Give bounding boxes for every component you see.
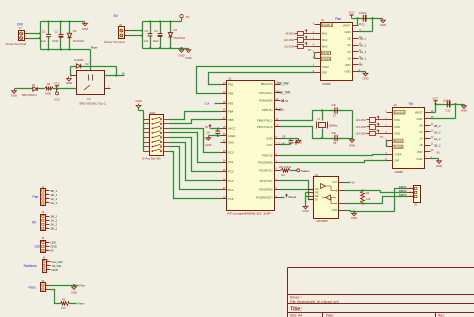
svg-text:1A: 1A [419, 137, 422, 141]
svg-text:10uF: 10uF [153, 39, 160, 43]
svg-text:B+: B+ [122, 72, 126, 76]
svg-text:U2: U2 [315, 173, 319, 177]
svg-text:PC1: PC1 [228, 160, 234, 164]
svg-text:ENABLE: ENABLE [322, 23, 333, 27]
svg-text:MS3: MS3 [395, 132, 401, 136]
svg-text:1B: 1B [419, 143, 422, 147]
svg-text:MS1: MS1 [395, 118, 401, 122]
svg-text:C2: C2 [55, 29, 59, 33]
svg-text:1uF: 1uF [144, 39, 149, 43]
svg-text:GND: GND [417, 117, 423, 121]
svg-text:GND: GND [362, 76, 368, 80]
svg-text:Pan: Pan [335, 17, 341, 21]
svg-text:PC2: PC2 [228, 170, 234, 174]
svg-text:PD4(T0): PD4(T0) [262, 154, 273, 158]
svg-text:2A: 2A [347, 43, 350, 47]
svg-text:2A_1: 2A_1 [51, 201, 58, 205]
svg-text:VCC: VCC [433, 96, 439, 100]
svg-text:Rev:: Rev: [438, 314, 445, 317]
svg-text:B: B [336, 189, 338, 193]
svg-text:5V: 5V [308, 48, 311, 52]
svg-text:GND: GND [332, 208, 338, 212]
svg-text:VCC: VCC [54, 97, 60, 101]
svg-text:VCC: VCC [54, 81, 60, 85]
svg-text:5V: 5V [437, 150, 441, 154]
svg-text:Reset: Reset [289, 195, 297, 199]
svg-text:GND: GND [417, 157, 423, 161]
svg-text:PD5(PWM): PD5(PWM) [258, 161, 272, 165]
svg-text:5V: 5V [205, 125, 208, 129]
svg-text:0.1uF: 0.1uF [204, 137, 211, 141]
svg-text:Size: A4: Size: A4 [290, 314, 302, 317]
svg-text:PB5: PB5 [228, 118, 234, 122]
svg-text:C8: C8 [282, 135, 286, 139]
svg-text:GND: GND [135, 99, 141, 103]
svg-text:8-Pos Dip SW: 8-Pos Dip SW [143, 157, 161, 161]
svg-text:Tilt: Tilt [408, 102, 412, 106]
svg-text:PC3: PC3 [228, 179, 234, 183]
svg-text:GND: GND [228, 140, 234, 144]
svg-text:J12 MS1: J12 MS1 [356, 118, 367, 122]
svg-text:2B_2: 2B_2 [434, 124, 441, 128]
svg-text:MAX485: MAX485 [317, 219, 328, 223]
svg-text:Fan-: Fan- [80, 283, 86, 287]
svg-text:PC0: PC0 [228, 151, 234, 155]
svg-text:5V: 5V [51, 249, 55, 253]
svg-text:Switches: Switches [24, 264, 38, 268]
svg-text:STEP: STEP [395, 153, 402, 157]
svg-text:GND: GND [66, 81, 72, 85]
svg-text:MS1: MS1 [322, 32, 328, 36]
svg-text:5V: 5V [114, 14, 119, 18]
svg-text:DI: DI [315, 198, 318, 202]
svg-text:1A_2: 1A_2 [434, 137, 441, 141]
svg-text:PB1: PB1 [228, 83, 234, 87]
svg-text:SRD-05VDC-SL-C: SRD-05VDC-SL-C [79, 101, 106, 105]
svg-text:VDD: VDD [417, 150, 423, 154]
svg-text:LED: LED [35, 245, 42, 249]
svg-text:VMOT: VMOT [343, 23, 351, 27]
svg-text:GND: GND [71, 290, 77, 294]
svg-text:MS2: MS2 [395, 125, 401, 129]
svg-text:J13 MS2: J13 MS2 [356, 125, 367, 129]
svg-text:PB7(XTAL2): PB7(XTAL2) [257, 125, 273, 129]
svg-text:Date:: Date: [326, 314, 334, 317]
svg-text:100uF: 100uF [359, 11, 367, 15]
svg-text:5V: 5V [360, 63, 364, 67]
svg-text:GND: GND [82, 27, 88, 31]
svg-text:PC6(RESET): PC6(RESET) [256, 196, 273, 200]
svg-text:2A_2: 2A_2 [434, 131, 441, 135]
svg-text:GND: GND [436, 164, 442, 168]
svg-text:Status: Status [301, 169, 310, 173]
svg-text:GND: GND [185, 56, 191, 60]
svg-text:SW1: SW1 [150, 111, 157, 115]
svg-text:MS3: MS3 [322, 44, 328, 48]
svg-text:5V: 5V [186, 15, 190, 19]
svg-text:PB2: PB2 [228, 92, 234, 96]
svg-text:VCC: VCC [267, 143, 273, 147]
svg-text:120: 120 [61, 306, 66, 310]
svg-text:J10 MS2: J10 MS2 [284, 38, 295, 42]
svg-text:A4988: A4988 [395, 170, 404, 174]
svg-text:1B: 1B [347, 56, 350, 60]
svg-text:5V: 5V [380, 135, 383, 139]
svg-text:VCC: VCC [332, 180, 338, 184]
svg-text:Screw Terminal: Screw Terminal [104, 40, 125, 44]
svg-text:Fans: Fans [29, 285, 37, 289]
svg-text:2A: 2A [419, 130, 422, 134]
svg-text:2A_1: 2A_1 [360, 43, 367, 47]
svg-text:DIR: DIR [395, 159, 400, 163]
svg-text:PB3: PB3 [228, 102, 234, 106]
svg-text:GND: GND [351, 216, 357, 220]
svg-text:GND: GND [345, 30, 351, 34]
svg-text:VCC: VCC [349, 11, 355, 15]
svg-text:C5: C5 [362, 23, 366, 27]
svg-text:GND: GND [349, 144, 355, 148]
svg-text:VDD: VDD [345, 63, 351, 67]
svg-text:DMX3: DMX3 [399, 193, 407, 197]
svg-text:0.1uF: 0.1uF [279, 141, 286, 145]
svg-text:File: MovingLight_v0.4.kicad_s: File: MovingLight_v0.4.kicad_sch [290, 300, 339, 304]
svg-text:GND: GND [380, 23, 386, 27]
svg-text:3nF: 3nF [332, 131, 337, 135]
svg-text:R1: R1 [47, 82, 51, 86]
svg-text:A: A [336, 202, 338, 206]
svg-text:PD3(INT1): PD3(INT1) [259, 168, 272, 172]
svg-text:PD5(T1): PD5(T1) [262, 108, 273, 112]
svg-text:1N4005: 1N4005 [74, 58, 84, 62]
svg-text:PD7(AIN1): PD7(AIN1) [259, 91, 273, 95]
svg-text:Tilt: Tilt [32, 221, 36, 225]
svg-text:CLK: CLK [204, 102, 209, 106]
svg-text:R3: R3 [282, 173, 286, 177]
svg-text:C3: C3 [145, 29, 149, 33]
svg-text:PC5: PC5 [228, 197, 234, 201]
svg-text:PB0(ICP): PB0(ICP) [261, 82, 273, 86]
svg-text:J6: J6 [414, 203, 417, 207]
svg-text:1N4732A: 1N4732A [174, 36, 186, 40]
svg-text:J9 MS1: J9 MS1 [285, 32, 294, 36]
svg-text:RE: RE [315, 191, 319, 195]
svg-text:GND: GND [205, 143, 211, 147]
svg-text:STEP: STEP [322, 65, 329, 69]
svg-text:PC4: PC4 [228, 188, 234, 192]
svg-text:1B_1: 1B_1 [360, 57, 367, 61]
svg-text:AVCC: AVCC [228, 127, 236, 131]
svg-text:PB4: PB4 [228, 109, 234, 113]
svg-text:PD6(AIN0): PD6(AIN0) [259, 99, 273, 103]
svg-text:C10: C10 [446, 108, 451, 112]
svg-text:Raw: Raw [91, 45, 98, 49]
svg-text:LED: LED [278, 108, 285, 112]
svg-text:ENABLE: ENABLE [395, 110, 406, 114]
svg-text:ATmega4808(-E)-10P: ATmega4808(-E)-10P [227, 211, 271, 215]
svg-text:Title:: Title: [290, 307, 302, 313]
svg-text:GND: GND [461, 109, 467, 113]
svg-text:GND: GND [178, 54, 184, 58]
svg-text:120: 120 [366, 197, 371, 201]
svg-text:1000: 1000 [45, 92, 51, 96]
svg-text:C7: C7 [333, 114, 337, 118]
svg-text:J14 MS3: J14 MS3 [356, 132, 367, 136]
svg-text:R4: R4 [366, 191, 370, 195]
svg-text:24V: 24V [17, 22, 24, 26]
svg-text:D3: D3 [73, 29, 77, 33]
svg-text:2B: 2B [419, 123, 422, 127]
svg-text:GND: GND [11, 94, 17, 98]
svg-text:R2: R2 [62, 298, 66, 302]
svg-text:100-150 Ω: 100-150 Ω [279, 165, 292, 169]
svg-text:2B_1: 2B_1 [360, 37, 367, 41]
svg-text:2nF: 2nF [332, 103, 337, 107]
svg-text:MS2: MS2 [322, 38, 328, 42]
svg-text:SLEEP: SLEEP [395, 145, 404, 149]
svg-text:2B_2: 2B_2 [51, 226, 58, 230]
svg-text:PD0(RXD): PD0(RXD) [259, 187, 272, 191]
svg-text:Screw Terminal: Screw Terminal [6, 42, 27, 46]
svg-text:GND: GND [302, 209, 308, 213]
svg-text:D4: D4 [174, 28, 178, 32]
svg-text:AREF: AREF [228, 134, 236, 138]
svg-text:RESET: RESET [395, 139, 404, 143]
svg-text:Pan_SW: Pan_SW [278, 91, 291, 95]
svg-text:A2: A2 [394, 103, 398, 107]
svg-text:PD1(TXD): PD1(TXD) [260, 179, 273, 183]
svg-text:VMOT: VMOT [415, 110, 423, 114]
svg-text:GND: GND [266, 137, 272, 141]
svg-text:DIR: DIR [322, 71, 327, 75]
svg-text:16MHz: 16MHz [329, 124, 338, 128]
svg-text:C1: C1 [42, 29, 46, 33]
svg-text:D1: D1 [32, 83, 36, 87]
svg-text:GND: GND [345, 70, 351, 74]
svg-text:Fan+: Fan+ [78, 302, 85, 306]
svg-text:PB6(XTAL1): PB6(XTAL1) [257, 119, 273, 123]
svg-text:C4: C4 [154, 29, 158, 33]
svg-text:BZV47NW-1: BZV47NW-1 [22, 93, 38, 97]
svg-text:Pan: Pan [33, 195, 39, 199]
svg-text:1uF: 1uF [41, 39, 46, 43]
svg-text:J11 MS3: J11 MS3 [284, 44, 295, 48]
svg-text:2B: 2B [347, 37, 350, 41]
svg-text:Tilt_SW: Tilt_SW [278, 82, 289, 86]
svg-text:1A_1: 1A_1 [360, 50, 367, 54]
svg-text:GND: GND [52, 268, 58, 272]
svg-text:A4988: A4988 [322, 82, 331, 86]
svg-text:U1: U1 [228, 77, 232, 81]
svg-text:RESET: RESET [322, 51, 331, 55]
svg-text:A1: A1 [321, 18, 325, 22]
svg-text:5V: 5V [352, 180, 356, 184]
svg-text:C8: C8 [333, 141, 337, 145]
svg-text:1B_2: 1B_2 [434, 144, 441, 148]
svg-text:K1: K1 [88, 97, 92, 101]
svg-text:SLEEP: SLEEP [322, 57, 331, 61]
svg-text:1N4732A: 1N4732A [73, 39, 85, 43]
svg-text:1A: 1A [347, 50, 350, 54]
svg-text:DE: DE [315, 194, 319, 198]
svg-text:100uF: 100uF [443, 98, 451, 102]
svg-text:47uF: 47uF [52, 39, 59, 43]
svg-text:C6: C6 [207, 130, 211, 134]
